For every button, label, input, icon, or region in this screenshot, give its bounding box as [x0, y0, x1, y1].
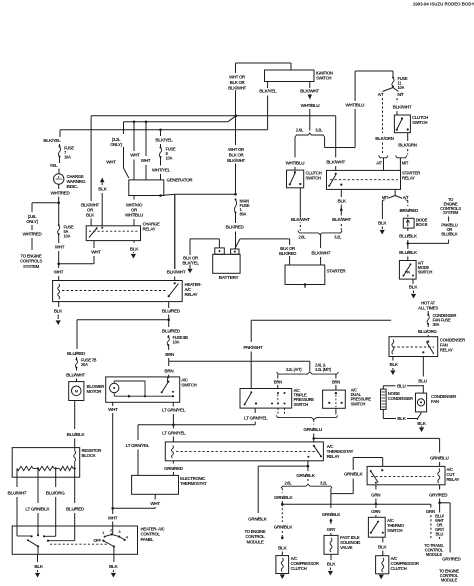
svg-text:BLK/WHT: BLK/WHT	[311, 250, 330, 255]
svg-text:WHT/YEL: WHT/YEL	[152, 168, 171, 173]
svg-text:BLK/RED: BLK/RED	[279, 251, 296, 256]
svg-text:BLK: BLK	[54, 309, 63, 314]
svg-text:BLK/YEL: BLK/YEL	[259, 89, 277, 94]
svg-text:RELAY: RELAY	[185, 292, 198, 297]
svg-text:BLOCK: BLOCK	[82, 453, 97, 458]
svg-text:SWITCH: SWITCH	[418, 270, 433, 275]
svg-text:BLK/WHT: BLK/WHT	[326, 159, 345, 164]
svg-text:30A: 30A	[433, 322, 440, 327]
svg-text:BLU/WHT: BLU/WHT	[8, 491, 27, 496]
svg-text:BLK/WHT: BLK/WHT	[393, 105, 412, 110]
svg-text:3.2L: 3.2L	[320, 480, 328, 485]
svg-text:M/T: M/T	[402, 161, 409, 166]
svg-text:BLK/YEL: BLK/YEL	[182, 261, 199, 266]
svg-text:3.2L: 3.2L	[315, 128, 323, 133]
svg-text:10A: 10A	[64, 154, 71, 159]
svg-text:BLK/WHT: BLK/WHT	[167, 270, 186, 275]
svg-text:WHT: WHT	[150, 501, 160, 506]
svg-text:BLK/GRN: BLK/GRN	[375, 136, 395, 141]
svg-text:SWITCH: SWITCH	[294, 402, 309, 407]
svg-text:BLK/WHT: BLK/WHT	[300, 89, 319, 94]
svg-text:BLK/WHT: BLK/WHT	[227, 158, 245, 163]
svg-text:BLU/ORG: BLU/ORG	[46, 491, 66, 496]
svg-text:WHT: WHT	[55, 245, 65, 250]
svg-text:GRN/BLK: GRN/BLK	[248, 516, 268, 521]
svg-text:2.6L: 2.6L	[299, 234, 307, 239]
svg-text:10A: 10A	[64, 233, 71, 238]
svg-text:WHT/RED: WHT/RED	[23, 232, 43, 237]
svg-text:A/T: A/T	[376, 161, 382, 166]
svg-text:BLK OR: BLK OR	[229, 152, 245, 157]
svg-text:BRN/RED: BRN/RED	[399, 208, 419, 213]
svg-text:LT GRN/YEL: LT GRN/YEL	[162, 408, 186, 413]
svg-text:10A: 10A	[166, 155, 173, 160]
svg-text:BLK: BLK	[327, 562, 336, 567]
svg-text:GRN/BLK: GRN/BLK	[296, 473, 316, 478]
svg-text:BLK: BLK	[409, 285, 418, 290]
svg-text:THERMOSTAT: THERMOSTAT	[180, 481, 207, 486]
svg-text:WHT: WHT	[91, 250, 101, 255]
svg-text:ONLY): ONLY)	[110, 142, 122, 147]
svg-text:STARTER: STARTER	[327, 269, 347, 274]
svg-text:BLK: BLK	[378, 221, 387, 226]
svg-text:BRN: BRN	[332, 379, 340, 384]
svg-text:MODULE: MODULE	[441, 578, 458, 583]
svg-text:RELAY: RELAY	[446, 477, 459, 482]
svg-text:RELAY: RELAY	[440, 348, 453, 353]
svg-text:P/N: P/N	[405, 271, 411, 275]
svg-text:GRY/RED: GRY/RED	[429, 492, 448, 497]
svg-text:YEL: YEL	[50, 163, 58, 168]
svg-text:BLK OR: BLK OR	[230, 80, 246, 85]
svg-text:WHT: WHT	[108, 515, 118, 520]
svg-text:FAN: FAN	[431, 399, 439, 404]
svg-text:BLU: BLU	[418, 379, 427, 384]
svg-text:BRN: BRN	[274, 379, 282, 384]
svg-text:BLU: BLU	[397, 383, 406, 388]
svg-text:SWITCH: SWITCH	[306, 176, 321, 181]
svg-text:LT GRN/YEL: LT GRN/YEL	[162, 430, 186, 435]
svg-text:ONLY): ONLY)	[26, 219, 38, 224]
svg-text:BLU/ORG: BLU/ORG	[418, 329, 438, 334]
svg-text:VALVE: VALVE	[340, 545, 353, 550]
svg-text:WHT: WHT	[141, 158, 151, 163]
svg-text:BLK: BLK	[397, 416, 406, 421]
svg-text:GRN/BLU: GRN/BLU	[303, 427, 323, 432]
svg-text:RELAY: RELAY	[143, 227, 156, 232]
svg-text:20A: 20A	[81, 362, 88, 367]
svg-text:BLK: BLK	[109, 564, 118, 569]
svg-text:M/T: M/T	[397, 92, 404, 97]
svg-text:BLU/RED: BLU/RED	[67, 351, 86, 356]
svg-text:2.6L: 2.6L	[296, 128, 304, 133]
svg-text:WHT: WHT	[54, 270, 64, 275]
svg-text:GRN/BLK: GRN/BLK	[274, 525, 294, 530]
svg-text:BLK: BLK	[337, 198, 346, 203]
svg-text:BLU/BLK: BLU/BLK	[399, 234, 418, 239]
svg-text:1993-94 ISUZU RODEO BODY: 1993-94 ISUZU RODEO BODY	[413, 2, 474, 7]
svg-text:BLK/GRN: BLK/GRN	[398, 142, 418, 147]
svg-text:BLU/WHT: BLU/WHT	[66, 373, 85, 378]
svg-text:BLU/BLK: BLU/BLK	[67, 432, 86, 437]
svg-text:GENERATOR: GENERATOR	[167, 178, 194, 183]
svg-text:RELAY: RELAY	[327, 454, 340, 459]
svg-text:BLK: BLK	[98, 187, 107, 192]
svg-text:WHT OR: WHT OR	[228, 147, 245, 152]
svg-text:WHT: WHT	[130, 153, 140, 158]
svg-text:WHT: WHT	[108, 407, 118, 412]
svg-text:3.2L: 3.2L	[334, 234, 342, 239]
svg-text:SWITCH: SWITCH	[351, 401, 366, 406]
svg-text:LT GRN/YEL: LT GRN/YEL	[244, 415, 268, 420]
svg-text:WHT OR: WHT OR	[229, 75, 246, 80]
svg-text:BLK/YEL: BLK/YEL	[155, 138, 173, 143]
svg-text:BLK/WHT: BLK/WHT	[291, 217, 310, 222]
svg-text:BLU/BLK: BLU/BLK	[441, 232, 457, 237]
svg-text:PANEL: PANEL	[141, 537, 154, 542]
svg-text:3.2L (M/T): 3.2L (M/T)	[315, 367, 332, 372]
svg-text:BLK: BLK	[130, 247, 139, 252]
svg-text:GRN/BLK: GRN/BLK	[322, 512, 342, 517]
svg-text:SYSTEM: SYSTEM	[23, 264, 40, 269]
svg-text:BLK/WHT: BLK/WHT	[332, 217, 351, 222]
svg-text:BLU: BLU	[436, 531, 444, 536]
svg-text:GRN/BLU: GRN/BLU	[430, 456, 450, 461]
svg-text:PNK/WHT: PNK/WHT	[243, 345, 263, 350]
svg-text:GRN/RED: GRN/RED	[164, 466, 184, 471]
svg-text:CONDENSER: CONDENSER	[388, 396, 414, 401]
svg-text:10A: 10A	[173, 340, 180, 345]
svg-text:BLK: BLK	[34, 564, 43, 569]
svg-text:SWITCH: SWITCH	[387, 528, 402, 533]
svg-text:WHT/BLU: WHT/BLU	[125, 213, 143, 218]
svg-text:LT GRN/BLK: LT GRN/BLK	[25, 507, 50, 512]
svg-text:GRN: GRN	[371, 509, 381, 514]
svg-text:GRN: GRN	[371, 492, 381, 497]
svg-text:M/T: M/T	[382, 195, 389, 200]
svg-text:SYSTEM: SYSTEM	[443, 210, 459, 215]
svg-text:BLU/RED: BLU/RED	[162, 309, 181, 314]
svg-text:BATTERY: BATTERY	[219, 275, 240, 281]
svg-text:BLU/RED: BLU/RED	[162, 329, 181, 334]
svg-text:WHT/BLU: WHT/BLU	[301, 103, 321, 108]
svg-text:RELAY: RELAY	[402, 176, 415, 181]
svg-text:GRY/RED: GRY/RED	[442, 557, 461, 562]
svg-text:BLK/YEL: BLK/YEL	[43, 138, 61, 143]
svg-text:WHT/RED: WHT/RED	[51, 191, 71, 196]
svg-text:BLK: BLK	[278, 545, 287, 550]
svg-text:CLUTCH: CLUTCH	[291, 566, 307, 571]
svg-text:GRY: GRY	[327, 527, 336, 532]
svg-text:80A: 80A	[240, 211, 247, 216]
svg-text:LT GRN/YEL: LT GRN/YEL	[126, 443, 150, 448]
svg-text:SWITCH: SWITCH	[181, 383, 196, 388]
svg-text:WHT/BLU: WHT/BLU	[345, 103, 365, 108]
svg-text:CLUTCH: CLUTCH	[391, 566, 407, 571]
svg-text:BLU/RED: BLU/RED	[66, 507, 85, 512]
svg-text:GRN/BLK: GRN/BLK	[274, 495, 294, 500]
svg-text:BRN: BRN	[164, 369, 174, 374]
svg-text:BLU/BLK: BLU/BLK	[399, 250, 418, 255]
svg-text:A/T: A/T	[403, 195, 409, 200]
svg-text:SWITCH: SWITCH	[412, 120, 427, 125]
svg-text:BRN: BRN	[165, 352, 175, 357]
svg-text:BLK: BLK	[417, 421, 426, 426]
svg-text:ALL TIMES: ALL TIMES	[418, 306, 438, 311]
svg-text:3.2L (A/T): 3.2L (A/T)	[286, 367, 302, 372]
svg-text:BLK: BLK	[378, 544, 387, 549]
svg-text:BLK/RED: BLK/RED	[226, 225, 245, 230]
svg-text:MODULE: MODULE	[247, 539, 264, 544]
svg-text:WHT: WHT	[106, 160, 116, 165]
svg-text:BLK: BLK	[389, 362, 398, 367]
svg-text:BLK: BLK	[86, 213, 95, 218]
svg-text:INDIC.: INDIC.	[67, 184, 78, 189]
svg-text:GRN/BLK: GRN/BLK	[344, 472, 364, 477]
svg-text:10A: 10A	[398, 85, 405, 90]
svg-text:MODULE: MODULE	[426, 552, 443, 557]
svg-text:BOX B: BOX B	[416, 222, 428, 227]
svg-text:OFF: OFF	[93, 538, 101, 543]
svg-text:A/T: A/T	[378, 92, 384, 97]
svg-text:WHT/BLU: WHT/BLU	[286, 160, 306, 165]
svg-text:2.6L: 2.6L	[285, 480, 293, 485]
svg-text:BLK/WHT: BLK/WHT	[228, 85, 246, 90]
svg-text:MOTOR: MOTOR	[87, 389, 103, 394]
svg-text:SWITCH: SWITCH	[316, 76, 331, 81]
